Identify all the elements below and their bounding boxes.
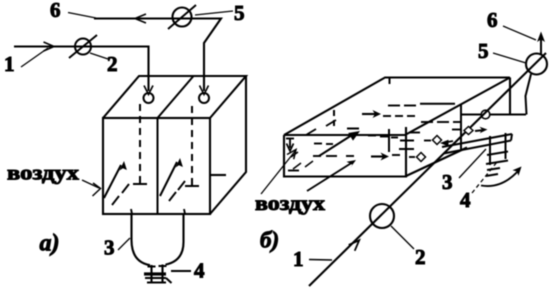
- divider back dash: [389, 78, 391, 88]
- nozzle 2: [199, 93, 209, 103]
- dash before diamond3: [452, 129, 462, 131]
- curved arrow 4: [481, 167, 522, 187]
- vessel box front face: [103, 118, 210, 214]
- svg-text:4: 4: [460, 188, 471, 212]
- svg-text:3: 3: [442, 170, 453, 194]
- svg-text:б): б): [260, 228, 279, 253]
- dashed vertical on top face: [333, 110, 335, 127]
- divider front: [388, 129, 390, 152]
- svg-text:2: 2: [107, 52, 118, 76]
- svg-text:а): а): [40, 231, 60, 257]
- label 1: [4, 48, 48, 76]
- diamond 3: [464, 127, 473, 135]
- label 4 b: [460, 162, 497, 212]
- funnel right wall: [166, 214, 184, 265]
- flow arrow right compartment: [160, 158, 183, 196]
- label 3: [104, 236, 130, 260]
- top face flow arrow right: [362, 110, 381, 118]
- label 3 b: [442, 149, 486, 194]
- vessel box right face: [210, 76, 246, 214]
- flap horizontals: [486, 152, 508, 165]
- level dashes y122: [421, 121, 462, 123]
- diamond 1: [417, 153, 426, 162]
- arrow after diamond3: [475, 127, 488, 133]
- down arrow front face: [286, 139, 294, 152]
- bubble circle on level line: [481, 110, 490, 119]
- dashed pipe inside right: [191, 106, 193, 186]
- arrow into nozzle 1: [144, 86, 153, 95]
- valve 2 b: [370, 204, 394, 228]
- label 2: [90, 52, 118, 76]
- arrow on main pipe: [349, 240, 360, 251]
- upslope flow arrow: [319, 131, 360, 156]
- clamp posts: [152, 265, 163, 284]
- dashed pipe foot right: [185, 185, 199, 187]
- right section inner vertical: [460, 105, 462, 150]
- vozduh label b: [255, 150, 326, 216]
- svg-text:6: 6: [487, 8, 498, 32]
- nozzle 1: [144, 93, 154, 103]
- outlet stub arrow 6 b: [537, 32, 545, 56]
- label 5 b: [478, 39, 526, 63]
- pipe 5-6 outlet line: [94, 19, 221, 92]
- svg-text:воздух: воздух: [7, 161, 80, 185]
- diamond 2: [433, 136, 442, 145]
- svg-text:1: 1: [293, 247, 304, 271]
- level tick right face: [210, 174, 226, 176]
- tray back right vertical: [509, 78, 511, 115]
- pipe 1 inlet line: [14, 47, 149, 92]
- dashed pipe inside left: [139, 104, 141, 184]
- flap verticals: [490, 133, 506, 165]
- front face dashes row2: [313, 155, 354, 157]
- outlet level line: [462, 114, 526, 116]
- label 5: [195, 1, 245, 25]
- hatch dashes left compartment: [112, 184, 132, 214]
- label 1 b: [293, 247, 332, 271]
- label 4: [171, 259, 205, 283]
- valve 5: [168, 5, 196, 29]
- top face dash mid: [347, 128, 359, 130]
- svg-text:воздух: воздух: [255, 191, 326, 215]
- dashed diagonal flow top face: [306, 120, 336, 135]
- step level dashes: [368, 136, 398, 138]
- svg-text:5: 5: [234, 1, 245, 25]
- svg-text:3: 3: [104, 236, 115, 260]
- front face dashes row1: [314, 143, 333, 146]
- svg-text:2: 2: [415, 245, 426, 269]
- dashed pipe foot left: [133, 183, 147, 185]
- svg-text:4: 4: [194, 259, 205, 283]
- front face dash after arrow: [392, 154, 400, 156]
- right section top edge: [420, 103, 455, 105]
- vozduh flow arrow b: [307, 160, 356, 191]
- tray top face: [284, 78, 510, 136]
- arrow on pipe 1: [44, 42, 55, 51]
- tray front face: [284, 127, 406, 177]
- dash before diamond1: [409, 156, 415, 158]
- label 2 b: [391, 226, 426, 269]
- front face flow arrow right: [371, 153, 389, 161]
- dash before diamond2: [424, 140, 431, 142]
- label 6: [50, 0, 96, 22]
- top face dashes right of arrow: [383, 115, 415, 117]
- svg-text:1: 1: [4, 52, 15, 76]
- weir ticks right wall: [399, 133, 420, 150]
- chute left arrow: [440, 140, 453, 147]
- arrow left end of outlet: [135, 14, 146, 23]
- svg-text:6: 6: [50, 0, 61, 22]
- vessel divider: [158, 76, 194, 214]
- vessel box top face: [103, 76, 246, 118]
- flow arrow left compartment: [104, 161, 127, 198]
- svg-text:5: 5: [478, 39, 489, 63]
- flap bottom dashes: [486, 168, 500, 176]
- chute plank: [442, 134, 512, 154]
- valve 2: [69, 35, 97, 58]
- lower-left hatch dashes: [288, 152, 313, 171]
- arrow into nozzle 2: [200, 86, 209, 95]
- tray bottom right edge: [405, 148, 467, 177]
- vozduh label a: [7, 161, 101, 197]
- main pipe 1 b: [309, 53, 546, 286]
- pipe from tray to valve 5: [526, 74, 532, 115]
- right section dashes: [388, 105, 416, 107]
- valve 5 b: [526, 54, 547, 75]
- clamp bars: [144, 274, 172, 283]
- hatch dashes right compartment: [169, 181, 185, 214]
- funnel left wall: [132, 214, 151, 265]
- label 6 b: [487, 8, 536, 40]
- clamp post caps: [148, 265, 167, 268]
